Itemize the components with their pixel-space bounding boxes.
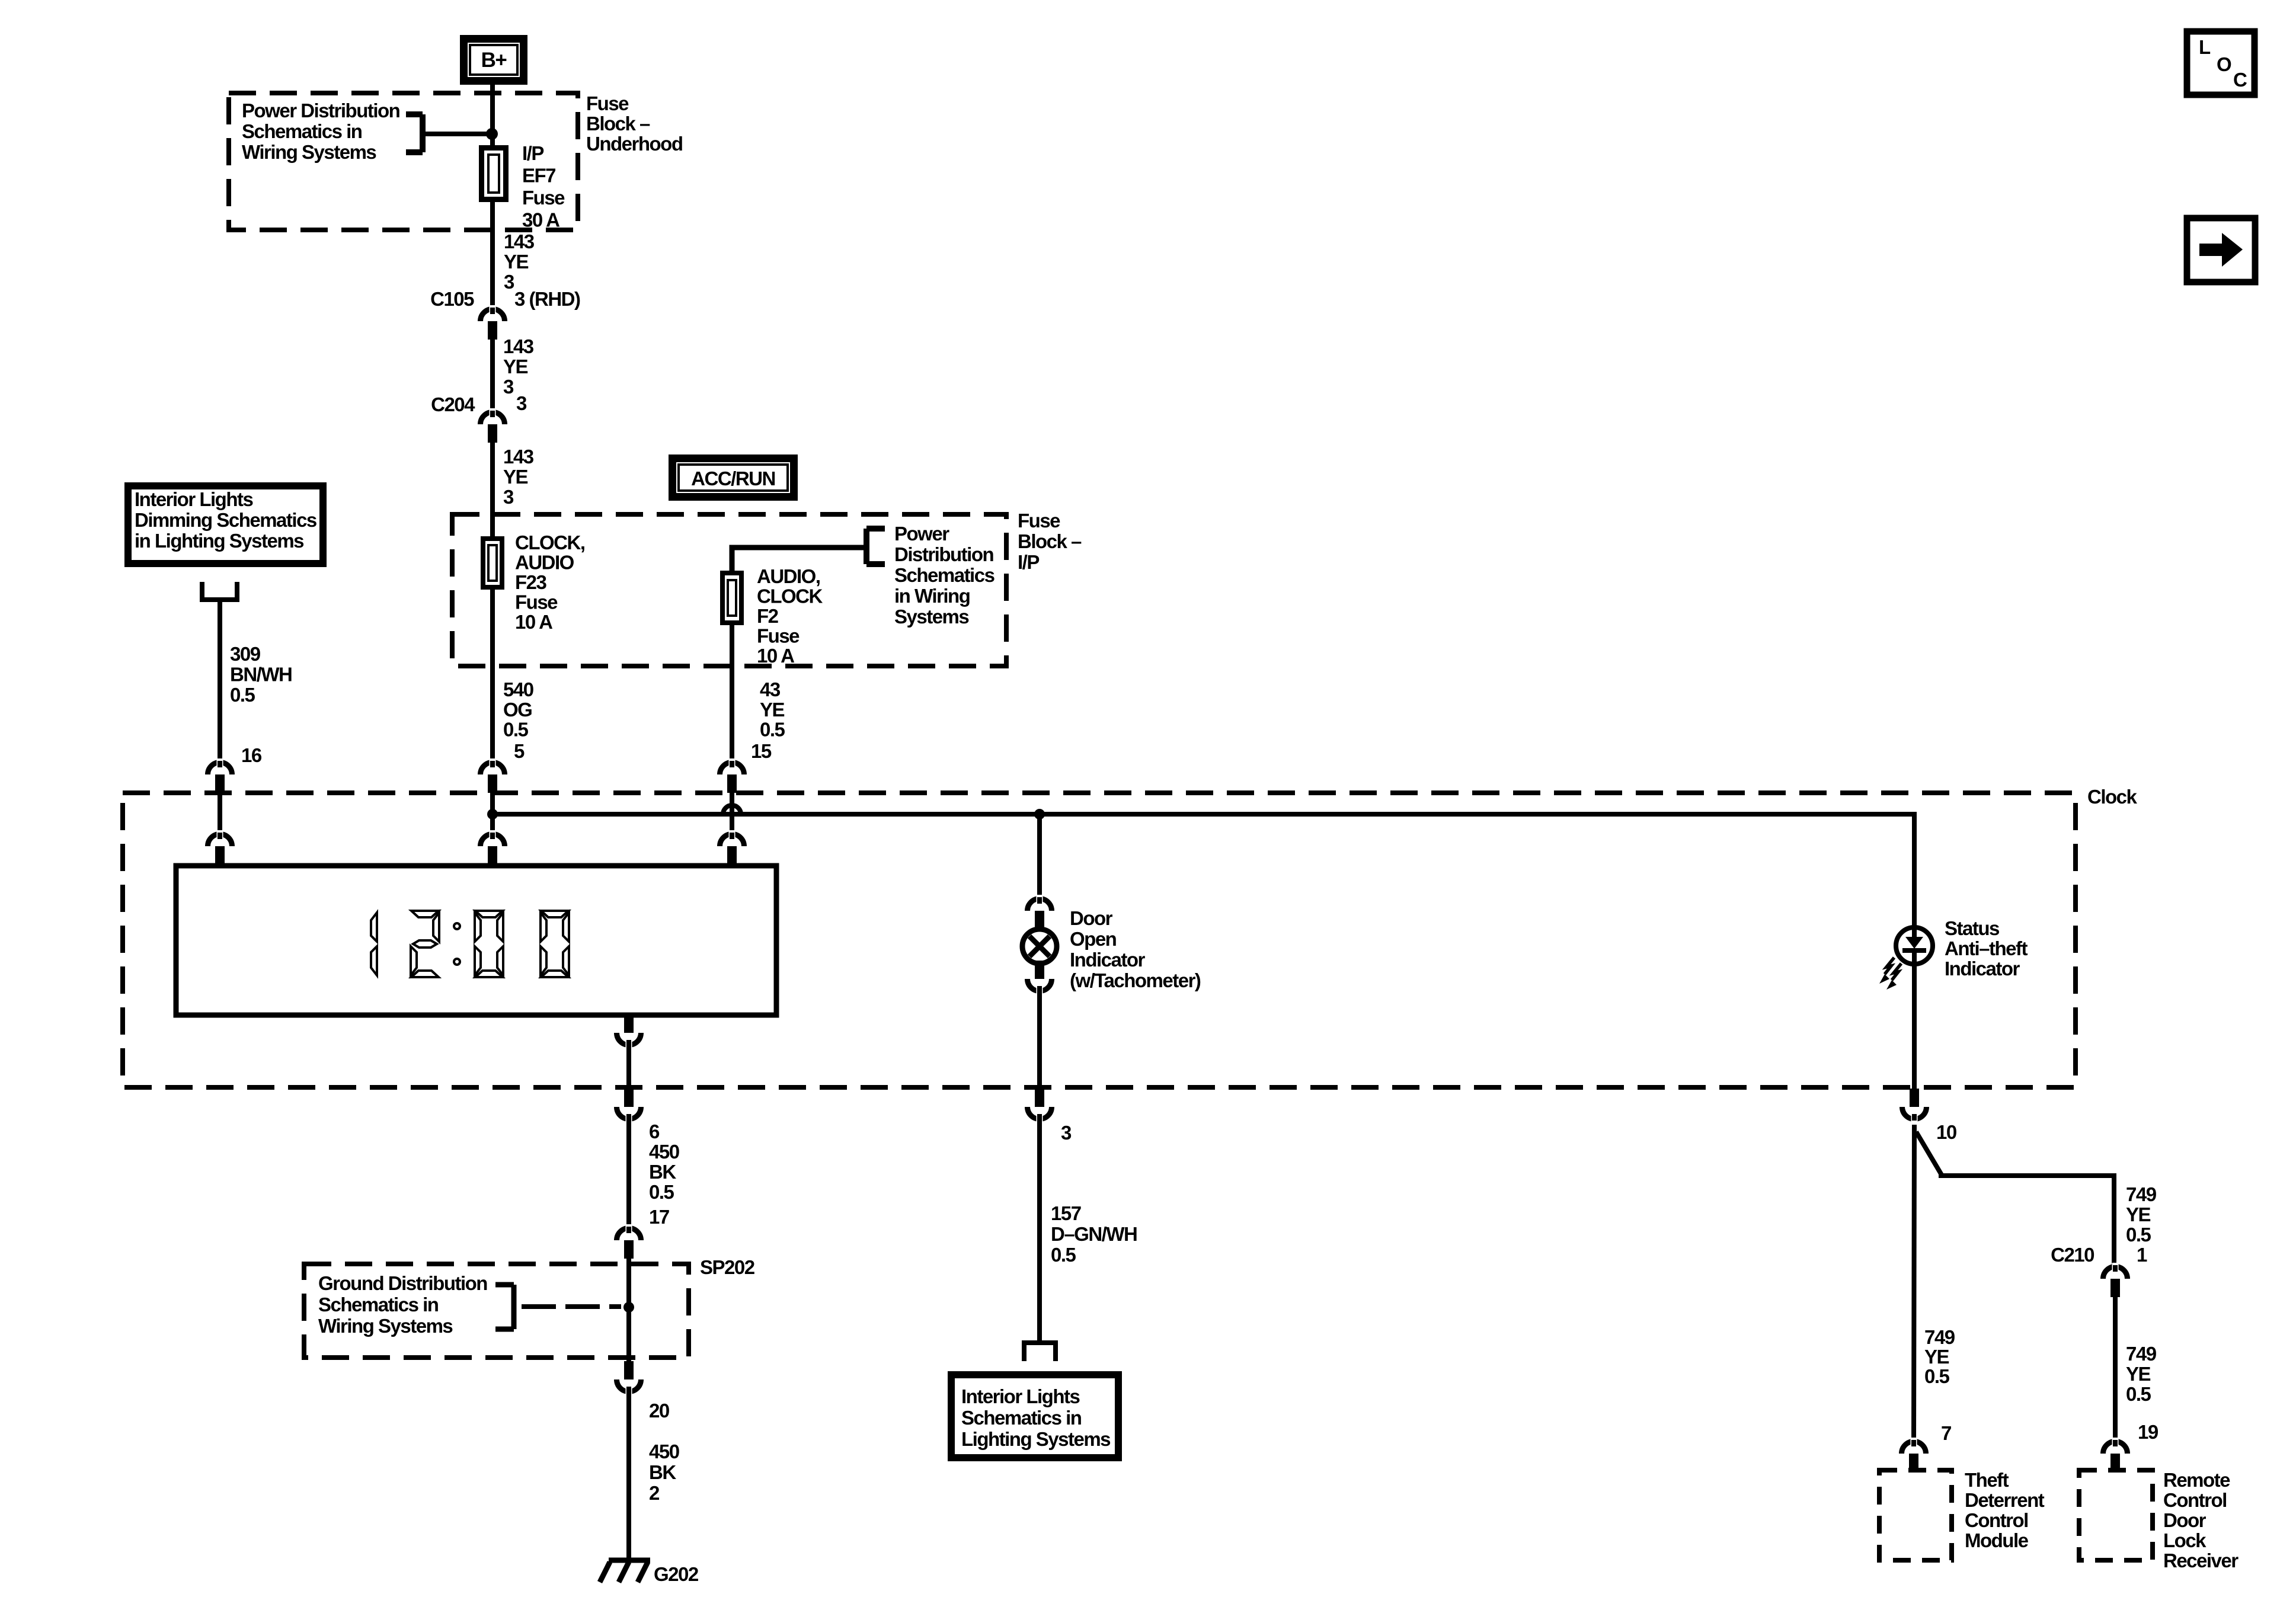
- svg-text:Door: Door: [1070, 907, 1113, 929]
- svg-text:F2: F2: [757, 605, 779, 627]
- svg-text:OG: OG: [503, 699, 532, 721]
- svg-text:Schematics in: Schematics in: [318, 1294, 439, 1315]
- svg-text:19: 19: [2138, 1421, 2159, 1443]
- svg-text:0.5: 0.5: [503, 719, 529, 741]
- svg-text:Module: Module: [1965, 1529, 2029, 1551]
- svg-text:143: 143: [504, 231, 535, 252]
- svg-text:143: 143: [503, 446, 534, 468]
- svg-text:Interior Lights: Interior Lights: [961, 1385, 1079, 1407]
- svg-text:Schematics: Schematics: [894, 564, 994, 586]
- svg-text:Fuse: Fuse: [515, 591, 558, 613]
- svg-text:D–GN/WH: D–GN/WH: [1051, 1223, 1137, 1245]
- svg-text:C210: C210: [2051, 1244, 2094, 1266]
- svg-text:540: 540: [503, 678, 533, 700]
- svg-text:O: O: [2217, 53, 2231, 75]
- svg-text:0.5: 0.5: [760, 719, 785, 741]
- svg-text:ACC/RUN: ACC/RUN: [691, 468, 775, 489]
- svg-text:CLOCK: CLOCK: [757, 585, 823, 607]
- svg-text:Open: Open: [1070, 928, 1117, 950]
- svg-text:0.5: 0.5: [2126, 1224, 2151, 1246]
- svg-text:AUDIO: AUDIO: [515, 552, 574, 574]
- svg-text:Underhood: Underhood: [586, 133, 682, 155]
- svg-text:450: 450: [649, 1441, 679, 1462]
- svg-text:Interior Lights: Interior Lights: [135, 488, 252, 510]
- svg-text:1: 1: [2137, 1244, 2147, 1266]
- svg-text:2: 2: [649, 1482, 660, 1504]
- svg-text:B+: B+: [481, 49, 507, 72]
- svg-text:C: C: [2233, 69, 2247, 91]
- svg-text:16: 16: [241, 744, 262, 766]
- svg-text:3 (RHD): 3 (RHD): [514, 288, 580, 310]
- svg-text:749: 749: [1924, 1326, 1955, 1348]
- svg-text:Power: Power: [894, 523, 949, 545]
- svg-text:BN/WH: BN/WH: [230, 664, 292, 686]
- svg-text:Schematics in: Schematics in: [961, 1407, 1082, 1429]
- svg-text:Distribution: Distribution: [894, 543, 993, 565]
- svg-text:749: 749: [2126, 1343, 2157, 1365]
- svg-text:Receiver: Receiver: [2163, 1550, 2239, 1571]
- svg-text:BK: BK: [649, 1161, 676, 1183]
- svg-text:Schematics in: Schematics in: [242, 120, 362, 142]
- svg-text:YE: YE: [503, 356, 528, 377]
- svg-text:157: 157: [1051, 1202, 1081, 1224]
- svg-text:Lighting Systems: Lighting Systems: [961, 1428, 1110, 1450]
- svg-text:Door: Door: [2163, 1509, 2207, 1531]
- svg-text:Fuse: Fuse: [1018, 510, 1060, 532]
- svg-text:3: 3: [516, 392, 527, 414]
- svg-text:Lock: Lock: [2163, 1529, 2207, 1551]
- svg-text:43: 43: [760, 678, 781, 700]
- svg-text:Block –: Block –: [1018, 530, 1082, 552]
- svg-text:Deterrent: Deterrent: [1965, 1489, 2045, 1511]
- svg-text:(w/Tachometer): (w/Tachometer): [1070, 969, 1201, 991]
- svg-text:in Lighting Systems: in Lighting Systems: [135, 530, 303, 552]
- svg-text:Ground Distribution: Ground Distribution: [318, 1272, 487, 1294]
- svg-text:0.5: 0.5: [230, 684, 255, 706]
- svg-text:10: 10: [1936, 1121, 1956, 1143]
- svg-text:Status: Status: [1945, 917, 1999, 939]
- svg-text:0.5: 0.5: [2126, 1383, 2151, 1405]
- svg-text:C204: C204: [431, 393, 475, 415]
- svg-text:3: 3: [503, 486, 514, 508]
- svg-text:450: 450: [649, 1141, 679, 1163]
- svg-text:6: 6: [649, 1121, 660, 1142]
- svg-text:I/P: I/P: [522, 142, 543, 164]
- svg-text:Remote: Remote: [2163, 1469, 2230, 1491]
- svg-text:Power Distribution: Power Distribution: [242, 100, 400, 121]
- svg-text:7: 7: [1941, 1422, 1951, 1444]
- svg-text:10 A: 10 A: [515, 611, 552, 633]
- svg-text:20: 20: [649, 1400, 669, 1422]
- svg-text:3: 3: [504, 271, 514, 293]
- svg-text:Clock: Clock: [2087, 786, 2138, 808]
- svg-text:Wiring Systems: Wiring Systems: [318, 1315, 452, 1337]
- svg-text:L: L: [2199, 36, 2211, 58]
- svg-text:YE: YE: [2126, 1363, 2151, 1385]
- svg-text:3: 3: [1061, 1122, 1072, 1144]
- svg-text:143: 143: [503, 335, 534, 357]
- svg-text:G202: G202: [654, 1563, 699, 1585]
- svg-text:309: 309: [230, 643, 261, 665]
- svg-text:YE: YE: [503, 466, 528, 488]
- svg-text:0.5: 0.5: [1924, 1365, 1950, 1387]
- svg-text:10 A: 10 A: [757, 645, 794, 667]
- svg-text:YE: YE: [2126, 1204, 2151, 1225]
- svg-text:Systems: Systems: [894, 606, 968, 628]
- svg-text:Wiring Systems: Wiring Systems: [242, 141, 376, 163]
- svg-text:15: 15: [751, 740, 772, 762]
- svg-text:CLOCK,: CLOCK,: [515, 532, 585, 553]
- svg-text:Indicator: Indicator: [1070, 949, 1146, 971]
- svg-text:Fuse: Fuse: [522, 187, 565, 209]
- svg-text:749: 749: [2126, 1183, 2157, 1205]
- svg-text:YE: YE: [504, 251, 529, 273]
- svg-text:3: 3: [503, 376, 514, 398]
- svg-text:in Wiring: in Wiring: [894, 585, 970, 607]
- svg-text:BK: BK: [649, 1461, 676, 1483]
- svg-text:Block –: Block –: [586, 113, 650, 135]
- svg-text:Theft: Theft: [1965, 1469, 2009, 1491]
- svg-text:5: 5: [514, 740, 525, 762]
- svg-text:Control: Control: [2163, 1489, 2227, 1511]
- svg-text:Fuse: Fuse: [586, 92, 629, 114]
- svg-text:30 A: 30 A: [522, 209, 559, 231]
- svg-text:C105: C105: [430, 288, 474, 310]
- svg-text:Control: Control: [1965, 1509, 2028, 1531]
- svg-text:Indicator: Indicator: [1945, 958, 2020, 980]
- svg-text:F23: F23: [515, 571, 547, 593]
- svg-text:Anti–theft: Anti–theft: [1945, 937, 2028, 959]
- svg-text:YE: YE: [1924, 1346, 1949, 1368]
- svg-text:I/P: I/P: [1018, 551, 1039, 573]
- svg-text:SP202: SP202: [700, 1256, 755, 1278]
- svg-text:YE: YE: [760, 699, 785, 721]
- svg-text:Fuse: Fuse: [757, 625, 800, 647]
- svg-text:0.5: 0.5: [649, 1181, 674, 1203]
- svg-text:EF7: EF7: [522, 165, 555, 187]
- svg-text:0.5: 0.5: [1051, 1244, 1076, 1266]
- svg-text:17: 17: [649, 1206, 669, 1228]
- svg-text:AUDIO,: AUDIO,: [757, 565, 820, 587]
- svg-text:Dimming Schematics: Dimming Schematics: [135, 509, 316, 531]
